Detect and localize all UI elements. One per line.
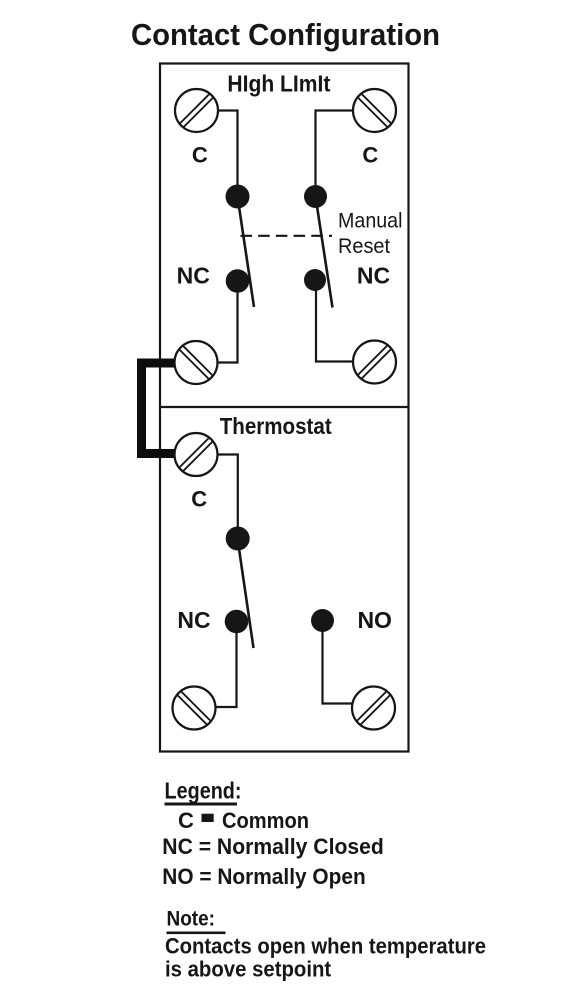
- svg-text:Thermostat: Thermostat: [220, 413, 332, 439]
- wire T1 to common contact left: [218, 111, 238, 197]
- svg-text:NC = Normally Closed: NC = Normally Closed: [162, 834, 383, 859]
- label Manual Reset: [338, 210, 403, 259]
- svg-text:Manual: Manual: [338, 210, 403, 233]
- terminal screw T6 (Thermostat NC): [173, 687, 216, 730]
- switch arm (Thermostat): [238, 539, 254, 649]
- svg-text:NC: NC: [357, 263, 390, 289]
- contact dot C right (High Limit): [304, 185, 327, 208]
- enclosure box: [160, 64, 409, 752]
- svg-text:C: C: [191, 487, 207, 512]
- svg-text:Legend:: Legend:: [165, 778, 242, 804]
- svg-text:C: C: [362, 142, 378, 167]
- terminal screw T3 (High Limit NC left): [175, 341, 218, 384]
- terminal screw T5 (Thermostat C): [175, 433, 218, 476]
- svg-text:Reset: Reset: [338, 235, 390, 258]
- wire NC contact to terminal T6: [217, 622, 237, 708]
- terminal screw T4 (High Limit NC right): [353, 341, 396, 384]
- legend heading underline: [165, 803, 238, 806]
- contact dot NC right (High Limit): [304, 269, 326, 291]
- svg-text:HIgh LImIt: HIgh LImIt: [227, 71, 330, 97]
- terminal screw T7 (Thermostat NO): [352, 687, 395, 730]
- svg-text:NO: NO: [357, 607, 392, 633]
- contact dot NC left (High Limit): [226, 269, 250, 293]
- wire NC left to terminal T3: [218, 281, 238, 363]
- terminal screw T1 (High Limit C left): [175, 89, 218, 132]
- svg-text:C: C: [178, 808, 194, 833]
- contact dot NO (Thermostat): [311, 609, 334, 632]
- switch arm left (High Limit): [238, 197, 255, 308]
- svg-text:Contact Configuration: Contact Configuration: [131, 17, 440, 52]
- svg-text:NO = Normally Open: NO = Normally Open: [162, 864, 365, 889]
- svg-text:Contacts open when temperature: Contacts open when temperature: [165, 934, 486, 959]
- svg-text:NC: NC: [177, 607, 210, 633]
- contact dot C (Thermostat): [226, 527, 250, 551]
- legend entry C: equals block: [202, 814, 214, 822]
- wire NC right to terminal T4: [316, 280, 353, 362]
- contact dot NC (Thermostat): [225, 610, 249, 634]
- dashed mechanical link (manual reset bar): [241, 235, 333, 237]
- svg-text:C: C: [192, 142, 208, 167]
- section divider line: [160, 406, 409, 408]
- wire NO contact to terminal T7: [323, 621, 352, 704]
- jumper wire (thick) T3 to T5: [142, 363, 175, 454]
- svg-text:Common: Common: [222, 808, 309, 833]
- wire T5 to common contact (Thermostat): [218, 455, 238, 539]
- note heading underline: [167, 932, 226, 935]
- svg-text:is above setpoint: is above setpoint: [165, 957, 332, 982]
- switch arm right (High Limit): [316, 197, 333, 308]
- terminal screw T2 (High Limit C right): [353, 89, 396, 132]
- svg-text:Note:: Note:: [167, 907, 216, 931]
- wire T2 to common contact right: [316, 111, 354, 197]
- svg-text:NC: NC: [177, 263, 210, 289]
- contact dot C left (High Limit): [226, 185, 250, 209]
